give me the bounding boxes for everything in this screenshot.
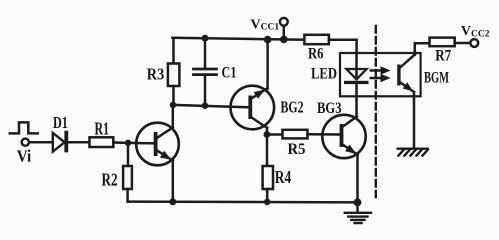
wire BG2 collector to node B xyxy=(266,128,269,135)
node A junction xyxy=(125,140,131,146)
svg-text:Vi: Vi xyxy=(17,147,32,166)
wire R1 to node A xyxy=(113,141,128,144)
light arrow 1 xyxy=(371,66,391,74)
svg-text:BGM: BGM xyxy=(424,70,449,87)
svg-text:BG2: BG2 xyxy=(281,98,304,117)
transistor BG1 xyxy=(136,123,179,166)
junction C1 bottom xyxy=(202,102,209,109)
svg-text:R5: R5 xyxy=(288,141,306,158)
svg-text:R1: R1 xyxy=(95,119,110,139)
capacitor C1 xyxy=(194,38,217,106)
resistor R5 xyxy=(283,130,308,139)
svg-text:R3: R3 xyxy=(147,65,165,84)
node B junction xyxy=(264,131,271,138)
resistor R1 xyxy=(90,137,114,147)
resistor R4 xyxy=(263,166,273,189)
transistor BG2 xyxy=(231,86,275,130)
diode D1 xyxy=(53,131,68,153)
junction BG1 emitter on bottom rail xyxy=(169,198,176,205)
wire node B to R5 xyxy=(267,133,283,136)
svg-text:R2: R2 xyxy=(102,169,118,189)
wire R7 to Vcc2 xyxy=(455,42,471,45)
transistor BG3 xyxy=(322,115,365,158)
wire Vi to D1 xyxy=(29,141,53,144)
junction C1 top xyxy=(202,35,209,42)
junction ground node xyxy=(354,199,362,207)
svg-text:R4: R4 xyxy=(275,167,292,187)
wire BG1 emitter riser xyxy=(172,160,175,201)
light arrow 2 xyxy=(371,74,391,82)
junction R4 bottom xyxy=(264,199,271,206)
bottom rail wire xyxy=(128,200,358,203)
wire R4 to bottom rail xyxy=(266,189,269,202)
svg-text:LED: LED xyxy=(311,66,337,83)
resistor R2 xyxy=(123,166,132,189)
terminal Vi xyxy=(22,139,29,146)
wire node B to R4 xyxy=(266,135,269,167)
wire node A to BG1 base xyxy=(128,142,156,145)
wire BG1 collector riser xyxy=(172,105,175,128)
svg-text:BG3: BG3 xyxy=(317,100,342,117)
svg-text:R6: R6 xyxy=(308,45,324,62)
svg-text:VCC1: VCC1 xyxy=(251,17,280,32)
chassis ground xyxy=(398,149,428,156)
wire BG3 emitter riser xyxy=(356,154,359,202)
wire Vcc1 stub xyxy=(283,26,286,40)
base rail wire (BG1 collector to BG2 base) xyxy=(173,105,251,107)
svg-text:D1: D1 xyxy=(53,113,68,132)
wire BG2 emitter riser xyxy=(266,40,269,89)
wire R5 to BG3 base xyxy=(308,133,342,136)
resistor R7 xyxy=(430,38,455,47)
svg-text:VCC2: VCC2 xyxy=(461,24,490,39)
earth ground xyxy=(345,202,371,223)
svg-text:C1: C1 xyxy=(222,64,237,81)
terminal Vcc2 xyxy=(470,39,478,47)
optocoupler box xyxy=(340,53,421,96)
resistor R6 xyxy=(304,35,329,44)
wire BGM collector to R7 xyxy=(415,43,430,54)
pulse source symbol xyxy=(10,122,38,133)
terminal Vcc1 xyxy=(280,18,288,26)
wire D1 to R1 xyxy=(68,141,89,144)
phototransistor BGM xyxy=(397,55,415,93)
junction R3 bottom xyxy=(170,102,177,109)
svg-text:R7: R7 xyxy=(435,48,451,65)
wire R6 to optocoupler LED xyxy=(329,40,357,53)
top rail wire xyxy=(172,38,304,40)
wire node A to R2 xyxy=(127,143,130,166)
wire R2 to bottom rail xyxy=(126,189,129,202)
resistor R3 xyxy=(168,38,180,105)
dashed isolation line xyxy=(375,26,377,197)
junction Vcc1 stub xyxy=(280,36,288,44)
junction BG2 emitter riser top xyxy=(264,36,272,44)
LED xyxy=(344,53,369,117)
wire BGM emitter to chassis ground xyxy=(413,92,416,148)
